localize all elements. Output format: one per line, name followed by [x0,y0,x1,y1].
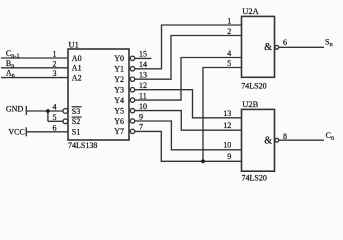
svg-text:1: 1 [53,50,57,59]
svg-text:4: 4 [53,103,57,112]
svg-text:15: 15 [139,50,147,59]
svg-text:U2B: U2B [242,99,258,109]
svg-text:74LS138: 74LS138 [68,141,97,150]
svg-text:14: 14 [139,60,147,69]
svg-text:U1: U1 [69,40,79,50]
svg-text:2: 2 [53,59,57,68]
svg-text:VCC: VCC [8,127,24,136]
svg-text:6: 6 [283,38,287,47]
svg-text:9: 9 [139,112,143,121]
svg-text:6: 6 [53,123,57,132]
svg-text:S1: S1 [72,128,80,137]
svg-text:S2: S2 [72,117,80,126]
svg-text:Y0: Y0 [114,54,124,63]
svg-text:Y2: Y2 [114,75,124,84]
svg-text:5: 5 [227,59,231,68]
svg-text:4: 4 [227,49,231,58]
svg-text:Y1: Y1 [114,65,124,74]
svg-text:A2: A2 [72,73,82,82]
svg-text:A0: A0 [72,54,82,63]
svg-text:S3: S3 [72,107,80,116]
svg-text:Y7: Y7 [114,127,124,136]
svg-text:1: 1 [227,16,231,25]
svg-text:&: & [264,136,272,147]
svg-text:Y3: Y3 [114,86,124,95]
svg-text:13: 13 [139,71,147,80]
svg-text:2: 2 [227,27,231,36]
svg-text:7: 7 [139,123,143,132]
svg-text:Y4: Y4 [114,96,124,105]
svg-text:3: 3 [53,69,57,78]
svg-text:GND: GND [6,105,24,114]
svg-text:8: 8 [283,132,287,141]
svg-text:U2A: U2A [242,6,259,16]
svg-text:5: 5 [53,113,57,122]
svg-text:&: & [264,42,272,53]
svg-text:11: 11 [139,91,147,100]
svg-text:A1: A1 [72,64,82,73]
svg-text:13: 13 [223,109,231,118]
svg-text:12: 12 [139,81,147,90]
svg-text:Y5: Y5 [114,106,124,115]
svg-text:Y6: Y6 [114,117,124,126]
svg-text:12: 12 [223,121,231,130]
svg-text:10: 10 [223,141,231,150]
svg-text:74LS20: 74LS20 [241,82,266,91]
svg-text:9: 9 [227,152,231,161]
svg-text:10: 10 [139,102,147,111]
svg-text:74LS20: 74LS20 [242,174,267,183]
